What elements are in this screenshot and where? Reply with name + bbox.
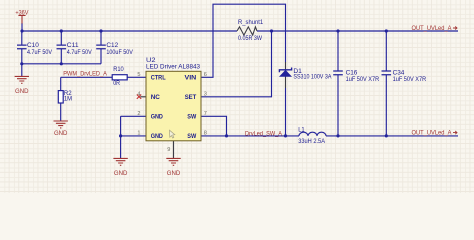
wire gnd tie under caps	[22, 63, 101, 65]
svg-text:2: 2	[137, 111, 140, 117]
ground under U2 pad	[166, 158, 180, 165]
svg-text:R10: R10	[113, 66, 124, 73]
svg-text:C11: C11	[67, 42, 79, 49]
svg-text:+36V: +36V	[15, 10, 29, 17]
wire +36V drop	[21, 23, 23, 31]
capacitor C34	[382, 71, 392, 75]
svg-text:GND: GND	[114, 170, 128, 177]
capacitor C12	[96, 45, 106, 49]
wire C16 string	[337, 31, 339, 136]
svg-text:DrvLed_SW_A: DrvLed_SW_A	[245, 130, 283, 137]
wire top rail left of shunt	[22, 30, 237, 32]
ground under C10	[15, 76, 29, 83]
diode D1	[279, 68, 291, 77]
svg-text:GND: GND	[15, 88, 29, 95]
wire top rail right of shunt	[257, 30, 458, 32]
svg-text:3: 3	[204, 91, 207, 97]
svg-text:4.7uF 50V: 4.7uF 50V	[67, 49, 93, 56]
svg-text:1uF 50V X7R: 1uF 50V X7R	[393, 76, 427, 83]
svg-text:VIN: VIN	[185, 75, 197, 82]
wire C11 string	[60, 31, 62, 64]
svg-text:L1: L1	[298, 126, 305, 133]
svg-text:SS310 100V 3A: SS310 100V 3A	[293, 74, 332, 81]
junction dots bottom rail	[119, 134, 122, 137]
svg-text:100uF 50V: 100uF 50V	[106, 49, 133, 56]
svg-text:C10: C10	[27, 42, 39, 49]
svg-text:6: 6	[204, 72, 207, 78]
wire PWM net	[61, 76, 112, 78]
svg-text:SET: SET	[185, 94, 197, 101]
svg-text:GND: GND	[167, 170, 181, 177]
wire SW bottom rail	[201, 135, 458, 137]
svg-text:R_shunt1: R_shunt1	[238, 19, 264, 26]
svg-text:SW: SW	[187, 114, 197, 121]
power +36V	[18, 15, 25, 23]
svg-text:PWM_DrvLED_A: PWM_DrvLED_A	[63, 71, 107, 78]
wire SET pin3	[201, 31, 272, 97]
svg-text:7: 7	[204, 111, 207, 117]
wire R2 bottom	[60, 103, 62, 121]
svg-text:5: 5	[137, 72, 140, 78]
svg-text:GND: GND	[54, 130, 68, 137]
svg-text:0.05R 3W: 0.05R 3W	[238, 35, 262, 42]
svg-text:LED Driver AL8843: LED Driver AL8843	[146, 64, 200, 71]
wire C10 string	[21, 31, 23, 76]
capacitor C10	[17, 45, 27, 49]
wire SW pin7	[201, 116, 227, 136]
wire R2 top	[60, 77, 62, 90]
svg-text:0R: 0R	[113, 80, 120, 87]
svg-text:NC: NC	[151, 94, 160, 101]
resistor R_shunt1	[237, 27, 257, 35]
svg-text:OUT_UVLed_A: OUT_UVLed_A	[412, 130, 453, 137]
wire VIN pin6 loop	[201, 4, 286, 77]
svg-text:1uF 50V X7R: 1uF 50V X7R	[346, 76, 380, 83]
svg-text:C12: C12	[106, 42, 118, 49]
svg-text:8: 8	[204, 131, 207, 137]
inductor L1	[299, 132, 326, 136]
capacitor C11	[57, 45, 67, 49]
svg-text:CTRL: CTRL	[151, 75, 166, 82]
svg-text:1M: 1M	[64, 96, 72, 103]
svg-text:OUT_UVLed_A: OUT_UVLed_A	[412, 25, 453, 32]
svg-text:1: 1	[137, 131, 140, 137]
wire GND pin2	[121, 116, 146, 158]
mouse cursor	[170, 130, 175, 138]
wire pad stub	[173, 141, 175, 158]
op-amp U2 body	[146, 71, 201, 141]
svg-text:GND: GND	[151, 114, 163, 121]
ground under U2 pin1	[113, 158, 127, 165]
no-connect cross pin4	[137, 95, 141, 99]
junction dots top rail	[20, 29, 23, 32]
wire D1 anode drop	[285, 76, 287, 88]
wire C12 string	[100, 31, 102, 64]
svg-text:4: 4	[137, 91, 140, 97]
svg-text:33uH 2.5A: 33uH 2.5A	[298, 138, 326, 145]
wire NC stub pin4	[140, 96, 146, 98]
wire C34 string	[385, 31, 387, 136]
svg-text:9: 9	[167, 147, 170, 153]
junction dots gnd tie	[20, 62, 23, 65]
svg-text:SW: SW	[187, 133, 197, 140]
wire R10 to CTRL pin5	[127, 76, 146, 78]
port arrow top	[453, 26, 457, 29]
resistor R10	[112, 75, 127, 80]
ground under R2	[54, 121, 68, 128]
svg-text:4.7uF 50V: 4.7uF 50V	[27, 49, 53, 56]
port arrow bottom	[453, 131, 457, 134]
wire GND pin1	[121, 135, 146, 137]
svg-text:GND: GND	[151, 133, 163, 140]
capacitor C16	[333, 71, 343, 75]
resistor R2	[58, 91, 63, 103]
